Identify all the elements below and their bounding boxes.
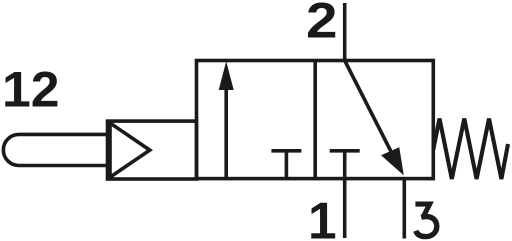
valve body xyxy=(197,61,434,179)
divider between positions xyxy=(313,61,317,179)
pilot triangle xyxy=(110,123,150,177)
T blocked port left box xyxy=(271,149,301,153)
diagonal flow line 2->3 xyxy=(345,61,392,154)
svg-text:2: 2 xyxy=(306,0,338,49)
up arrowhead xyxy=(219,61,234,90)
svg-text:12: 12 xyxy=(2,61,60,117)
port 3 line xyxy=(402,179,406,239)
diagonal arrowhead xyxy=(381,147,404,175)
label 3 xyxy=(415,204,436,237)
pilot box xyxy=(108,121,197,179)
T blocked port right box xyxy=(330,149,360,153)
up arrow stem (left position flow path) xyxy=(224,88,228,179)
plunger (manual override rod) xyxy=(3,134,107,165)
svg-text:1: 1 xyxy=(308,191,337,241)
spring xyxy=(433,119,508,180)
port 2 line xyxy=(343,3,347,61)
port 1 line xyxy=(343,179,347,238)
